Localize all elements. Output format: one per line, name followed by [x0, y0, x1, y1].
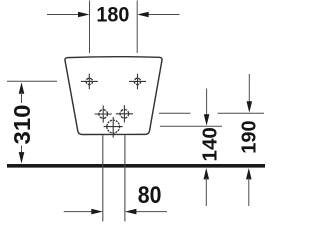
svg-text:180: 180: [96, 3, 129, 27]
svg-text:310: 310: [10, 105, 36, 145]
dim 80: left arrow: [64, 209, 103, 215]
dim 310: top extension line: [7, 80, 57, 82]
dim 180: right extension line: [136, 1, 138, 54]
drain pipe left line: [102, 135, 104, 221]
drain hole (crosshair): [104, 117, 123, 138]
dim 190: extension line left segment: [159, 112, 191, 114]
dim 190: extension line right segment: [218, 112, 264, 114]
fixing hole mid-right (crosshair): [116, 105, 133, 122]
bidet body outline: [65, 57, 162, 135]
drain pipe right line: [124, 135, 126, 221]
svg-text:190: 190: [238, 120, 260, 153]
dim 310: dimension line lower part with down arrow: [19, 146, 25, 164]
fixing hole mid-left (crosshair): [95, 105, 112, 122]
dim 180: left arrow: [47, 12, 90, 18]
dim 190: lower up arrow below floor: [246, 168, 252, 206]
dim 80: right arrow: [125, 209, 167, 215]
dim 140: extension line: [160, 125, 222, 127]
mounting hole right (crosshair): [129, 74, 146, 90]
dim 140: lower up arrow below floor: [204, 168, 210, 206]
dim 180: left extension line: [89, 1, 91, 54]
dim 190: upper down arrow: [247, 74, 253, 113]
svg-text:80: 80: [138, 181, 162, 209]
dim 180: right arrow: [137, 12, 179, 18]
floor line: [7, 164, 265, 168]
mounting hole left (crosshair): [81, 74, 98, 90]
svg-text:140: 140: [200, 127, 222, 161]
dim 140: upper down arrow: [204, 89, 210, 126]
dim 310: dimension line upper part with up arrow: [19, 82, 25, 103]
